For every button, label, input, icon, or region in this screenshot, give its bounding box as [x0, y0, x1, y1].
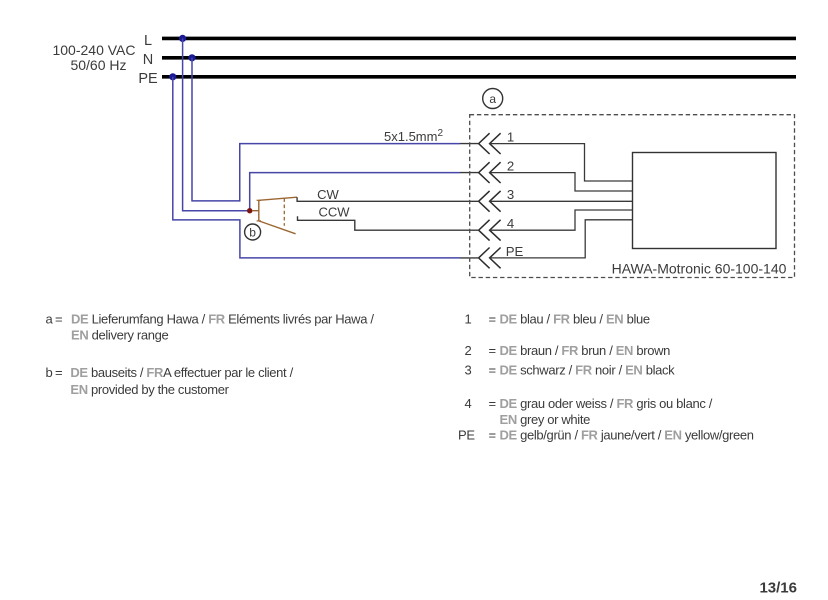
circle a [483, 89, 503, 109]
svg-text:2: 2 [507, 159, 514, 174]
svg-text:CCW: CCW [318, 205, 350, 220]
wire terminal 3 to controller [489, 200, 633, 202]
wire stub terminal 2 (dark) [460, 172, 478, 174]
svg-text:5x1.5mm2: 5x1.5mm2 [384, 128, 443, 144]
wire terminal 4 to controller [489, 210, 633, 230]
svg-text:PE=DE gelb/grün / FR jaune/ver: PE=DE gelb/grün / FR jaune/vert / EN yel… [458, 428, 754, 443]
svg-text:1: 1 [507, 130, 514, 145]
dashed delivery-range box a [470, 115, 795, 278]
wire stub terminal PE (dark) [460, 257, 478, 259]
switch b contact bar [258, 200, 260, 221]
svg-text:50/60 Hz: 50/60 Hz [70, 57, 126, 73]
wire junction to terminal 2 (blue) [250, 173, 460, 211]
svg-text:a: a [489, 92, 496, 106]
svg-text:3: 3 [507, 187, 514, 202]
svg-text:CW: CW [317, 187, 339, 202]
switch b common lead [252, 210, 259, 212]
switch b upper contact to CW [259, 197, 297, 200]
switch b mechanical link (dashed) [283, 198, 285, 226]
controller box U1 [633, 153, 777, 249]
wire PE to terminal PE (blue) [173, 77, 460, 258]
circle b [245, 224, 261, 240]
bus PE [162, 75, 796, 79]
svg-text:PE: PE [138, 71, 158, 87]
svg-text:13/16: 13/16 [759, 580, 797, 597]
connector terminal 1 chevrons [479, 133, 501, 154]
svg-text:4: 4 [507, 216, 514, 231]
svg-text:a=DE Lieferumfang Hawa / FR El: a=DE Lieferumfang Hawa / FR Eléments liv… [46, 312, 375, 327]
bus L [162, 37, 796, 41]
svg-text:EN provided by the customer: EN provided by the customer [70, 382, 229, 397]
wire N to terminal 1 (blue) [192, 58, 460, 201]
node dot on PE [169, 73, 176, 80]
svg-text:PE: PE [506, 244, 524, 259]
svg-text:b: b [249, 226, 256, 240]
svg-text:1=DE blau / FR bleu / EN blu: 1=DE blau / FR bleu / EN blue [465, 312, 650, 327]
svg-text:4=DE grau oder weiss / FR gris: 4=DE grau oder weiss / FR gris ou blanc … [465, 396, 713, 411]
svg-text:3=DE schwarz / FR noir / EN bl: 3=DE schwarz / FR noir / EN black [465, 362, 676, 377]
wire CCW to terminal 4 [298, 216, 479, 230]
svg-text:EN delivery range: EN delivery range [71, 328, 168, 343]
wire L to junction b (blue) [183, 38, 250, 210]
switch b lower lever (open) [259, 221, 296, 234]
wire terminal 1 to controller [489, 144, 633, 181]
switch b bar tick top [257, 199, 261, 201]
svg-text:N: N [143, 52, 153, 68]
bus N [162, 56, 796, 60]
svg-text:EN grey or white: EN grey or white [500, 412, 591, 427]
svg-text:L: L [144, 33, 152, 49]
svg-text:HAWA-Motronic 60-100-140: HAWA-Motronic 60-100-140 [612, 261, 787, 277]
wire CW to terminal 3 [297, 197, 478, 201]
wire stub terminal 1 (dark) [460, 143, 478, 145]
connector terminal 4 chevrons [479, 220, 501, 241]
wire terminal PE to controller [489, 220, 633, 258]
connector terminal 3 chevrons [479, 191, 501, 212]
connector terminal 2 chevrons [479, 162, 501, 183]
switch b bar tick bottom [257, 220, 261, 222]
wire terminal 2 to controller [489, 173, 633, 191]
junction node dot (maroon) [247, 208, 252, 213]
connector terminal PE chevrons [479, 248, 501, 269]
svg-text:100-240 VAC: 100-240 VAC [52, 42, 135, 58]
svg-text:2=DE braun / FR brun / EN brow: 2=DE braun / FR brun / EN brown [465, 343, 671, 358]
svg-text:b=DE bauseits / FRA effectuer: b=DE bauseits / FRA effectuer par le cli… [46, 365, 294, 380]
node dot on N [188, 54, 195, 61]
node dot on L [179, 35, 186, 42]
